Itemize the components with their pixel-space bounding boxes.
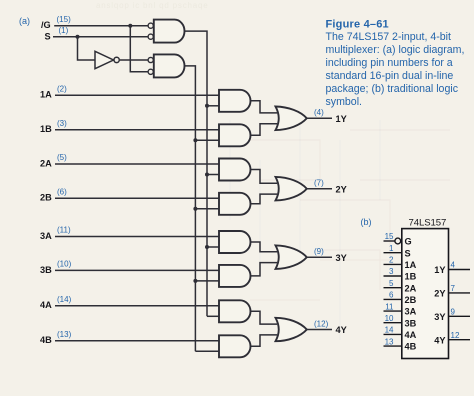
svg-text:1A: 1A	[40, 90, 52, 100]
svg-text:1A: 1A	[405, 260, 417, 270]
IC U2 74LS157 title	[409, 218, 447, 229]
svg-text:2A: 2A	[40, 158, 52, 168]
pin number 7	[451, 284, 456, 293]
wire 2Y output	[307, 188, 332, 190]
svg-text:1: 1	[389, 244, 394, 253]
pin (3) on 1B	[57, 119, 67, 128]
OR gate for 4Y	[276, 318, 307, 341]
wire 1A gate output to OR	[251, 101, 278, 113]
pin 1 on S	[59, 26, 69, 35]
svg-text:3B: 3B	[40, 265, 52, 275]
wire select bus to 4B gate second input	[195, 350, 219, 352]
net /G label	[41, 20, 51, 30]
node label (b)	[361, 217, 372, 227]
pin 15 (G) wire	[384, 240, 395, 242]
pin number 9	[451, 308, 456, 317]
net 2B label	[40, 193, 52, 203]
svg-text:(12): (12)	[314, 319, 329, 328]
AND gate for 3B	[219, 265, 251, 287]
wire 4B to AND gate	[55, 340, 219, 342]
pin label 3Y	[434, 312, 445, 322]
svg-text:symbol.: symbol.	[326, 96, 363, 108]
pin 10 (3B) wire	[384, 322, 402, 324]
svg-text:(1): (1)	[59, 26, 69, 35]
net 3Y label	[336, 253, 347, 263]
pin 7 (2Y) wire	[449, 292, 471, 294]
svg-text:3Y: 3Y	[336, 253, 347, 263]
wire 3Y output	[307, 256, 332, 258]
wire 2A gate output to OR	[251, 170, 278, 184]
wire 4A to AND gate	[55, 305, 219, 307]
OR gate for 1Y	[276, 107, 307, 131]
svg-text:(5): (5)	[57, 153, 67, 162]
pin label 2Y	[434, 289, 445, 299]
pin label S	[405, 248, 411, 258]
wire select bus to 1B gate second input	[195, 139, 219, 141]
svg-text:(11): (11)	[57, 226, 71, 235]
wire 4Y output	[307, 329, 332, 331]
svg-text:(b): (b)	[361, 217, 372, 227]
svg-text:2Y: 2Y	[434, 289, 445, 299]
wire S to gate G1 input	[53, 36, 148, 38]
svg-text:4Y: 4Y	[434, 335, 445, 345]
svg-text:4B: 4B	[405, 342, 417, 352]
wire select bus to 2A gate second input	[207, 174, 219, 176]
pin 11 (3A) wire	[384, 310, 402, 312]
figure caption	[326, 19, 465, 109]
svg-text:(15): (15)	[57, 15, 72, 24]
pin number 15	[385, 232, 394, 241]
AND gate for 3A	[219, 231, 251, 253]
svg-text:3A: 3A	[40, 231, 52, 241]
net 4A label	[40, 300, 52, 310]
junction on /G	[128, 24, 132, 28]
wire select bus to 4A gate second input	[207, 315, 219, 317]
pin label 4B	[405, 342, 417, 352]
pin label 4Y	[434, 335, 445, 345]
pin (7) on 2Y	[314, 179, 324, 188]
svg-text:S: S	[405, 248, 411, 258]
wire 4B gate output to OR	[251, 335, 278, 346]
svg-text:2A: 2A	[405, 283, 417, 293]
wire 3A to AND gate	[55, 236, 219, 238]
svg-text:/G: /G	[41, 20, 51, 30]
pin label 3A	[405, 307, 417, 317]
pin (10) on 3B	[57, 259, 72, 268]
pin 2 (1A) wire	[384, 263, 402, 265]
wire /G to gate G1 input	[54, 25, 148, 27]
junction bus at 1A gate	[205, 104, 209, 108]
svg-text:1Y: 1Y	[336, 114, 347, 124]
pin 3 (1B) wire	[384, 275, 402, 277]
svg-text:9: 9	[451, 308, 456, 317]
AND gate for 4A	[219, 300, 251, 322]
svg-text:(2): (2)	[57, 84, 67, 93]
svg-text:(14): (14)	[57, 295, 72, 304]
pin 13 (4B) wire	[384, 345, 402, 347]
wire select bus to 2B gate second input	[195, 208, 219, 210]
svg-text:2B: 2B	[40, 193, 52, 203]
node label (a)	[19, 16, 30, 26]
wire 2B gate output to OR	[251, 194, 278, 204]
net 2A label	[40, 158, 52, 168]
svg-text:7: 7	[451, 284, 456, 293]
pin number 10	[385, 314, 394, 323]
pin number 13	[385, 337, 394, 346]
svg-text:3Y: 3Y	[434, 312, 445, 322]
net 2Y label	[336, 184, 347, 194]
AND gate for 1B	[219, 124, 251, 146]
AND gate for 4B	[219, 335, 251, 357]
svg-text:5: 5	[389, 279, 394, 288]
junction bus at 2B gate	[193, 207, 197, 211]
AND gate G1 (A-select enable, bubbled inputs)	[148, 20, 184, 43]
OR gate for 2Y	[276, 177, 307, 201]
pin 9 (3Y) wire	[449, 315, 471, 317]
svg-text:4A: 4A	[40, 300, 52, 310]
pin number 2	[389, 256, 394, 265]
inverter U1	[95, 51, 119, 68]
junction bus at 3A gate	[205, 245, 209, 249]
net S label	[45, 31, 51, 41]
pin number 12	[451, 331, 460, 340]
pin 15 on /G	[57, 15, 72, 24]
wire 3B gate output to OR	[251, 263, 278, 276]
svg-text:including pin numbers for a: including pin numbers for a	[326, 57, 453, 69]
svg-text:6: 6	[389, 291, 394, 300]
wire 1A to AND gate	[55, 94, 219, 96]
svg-text:4B: 4B	[40, 335, 52, 345]
pin number 14	[385, 326, 394, 335]
pin label 4A	[405, 330, 417, 340]
svg-text:(4): (4)	[314, 108, 324, 117]
svg-text:2: 2	[389, 256, 394, 265]
AND gate for 2A	[219, 159, 251, 181]
svg-text:14: 14	[385, 326, 394, 335]
svg-text:4A: 4A	[405, 330, 417, 340]
svg-text:(10): (10)	[57, 259, 72, 268]
IC U2 body	[402, 229, 449, 359]
svg-text:The 74LS157 2-input, 4-bit: The 74LS157 2-input, 4-bit	[326, 31, 452, 43]
junction bus at 1B gate	[193, 138, 197, 142]
wire 2A to AND gate	[55, 163, 219, 165]
svg-text:1Y: 1Y	[434, 265, 445, 275]
pin 1 (S) wire	[384, 252, 402, 254]
pin label 3B	[405, 318, 417, 328]
svg-text:1B: 1B	[40, 124, 52, 134]
svg-text:11: 11	[385, 302, 394, 311]
wire select bus to 3B gate second input	[195, 280, 219, 282]
svg-text:G: G	[405, 237, 412, 247]
pin (11) on 3A	[57, 226, 71, 235]
AND gate for 1A	[219, 90, 251, 112]
net 1Y label	[336, 114, 347, 124]
AND gate for 2B	[219, 193, 251, 215]
wire 1B gate output to OR	[251, 124, 278, 136]
svg-text:4: 4	[451, 261, 456, 270]
svg-text:(3): (3)	[57, 119, 67, 128]
net 4B label	[40, 335, 52, 345]
net 4Y label	[336, 325, 347, 335]
svg-text:standard 16-pin dual in-line: standard 16-pin dual in-line	[326, 70, 454, 82]
wire 4A gate output to OR	[251, 311, 278, 324]
pin label 2B	[405, 295, 417, 305]
pin number 6	[389, 291, 394, 300]
pin number 3	[389, 267, 394, 276]
net 3A label	[40, 231, 52, 241]
svg-text:(6): (6)	[57, 187, 67, 196]
pin label 1B	[405, 272, 417, 282]
svg-text:anslqop ic bnl qd pschaqe: anslqop ic bnl qd pschaqe	[96, 1, 209, 10]
junction bus at 2A gate	[205, 173, 209, 177]
wire 1B to AND gate	[55, 129, 219, 131]
svg-text:74LS157: 74LS157	[409, 218, 447, 229]
pin 12 (4Y) wire	[449, 339, 471, 341]
pin 5 (2A) wire	[384, 287, 402, 289]
pin label G	[405, 237, 412, 247]
pin (4) on 1Y	[314, 108, 324, 117]
svg-text:2B: 2B	[405, 295, 417, 305]
pin (2) on 1A	[57, 84, 67, 93]
svg-text:10: 10	[385, 314, 394, 323]
wire 1Y output	[307, 117, 332, 119]
svg-text:Figure 4–61: Figure 4–61	[326, 19, 389, 31]
pin label 1A	[405, 260, 417, 270]
pin label 1Y	[434, 265, 445, 275]
pin (12) on 4Y	[314, 319, 329, 328]
wire /G branch down to gate G2 input	[130, 26, 148, 72]
pin 6 (2B) wire	[384, 298, 402, 300]
svg-text:3: 3	[389, 267, 394, 276]
wire 3B to AND gate	[55, 269, 219, 271]
pin (13) on 4B	[57, 330, 72, 339]
svg-text:multiplexer: (a) logic diagra: multiplexer: (a) logic diagram,	[326, 44, 465, 56]
pin number 4	[451, 261, 456, 270]
svg-text:(7): (7)	[314, 179, 324, 188]
wire G1 output / select bus A	[185, 31, 208, 316]
svg-text:15: 15	[385, 232, 394, 241]
svg-text:package; (b) traditional logic: package; (b) traditional logic	[326, 83, 459, 95]
wire inverter output to gate G2	[120, 59, 148, 61]
svg-text:12: 12	[451, 331, 460, 340]
pin (9) on 3Y	[314, 247, 324, 256]
svg-text:3B: 3B	[405, 318, 417, 328]
pin (6) on 2B	[57, 187, 67, 196]
wire 3A gate output to OR	[251, 242, 278, 252]
bubble on G input	[395, 238, 401, 244]
svg-text:(9): (9)	[314, 247, 324, 256]
AND gate G2 (B-select enable, bubbled inputs)	[148, 54, 184, 77]
wire select bus to 1A gate second input	[207, 105, 219, 107]
pin (5) on 2A	[57, 153, 67, 162]
pin number 1	[389, 244, 394, 253]
pin number 5	[389, 279, 394, 288]
OR gate for 3Y	[276, 245, 307, 269]
pin (14) on 4A	[57, 295, 72, 304]
svg-text:S: S	[45, 31, 51, 41]
wire G2 output / select bus B	[185, 66, 196, 351]
wire select bus to 3A gate second input	[207, 246, 219, 248]
svg-text:4Y: 4Y	[336, 325, 347, 335]
svg-text:(a): (a)	[19, 16, 30, 26]
junction on S	[76, 35, 80, 39]
svg-text:1B: 1B	[405, 272, 417, 282]
wire 2B to AND gate	[55, 197, 219, 199]
pin 4 (1Y) wire	[449, 269, 471, 271]
svg-text:2Y: 2Y	[336, 184, 347, 194]
wire S branch to inverter	[78, 37, 96, 60]
pin 14 (4A) wire	[384, 333, 402, 335]
svg-text:3A: 3A	[405, 307, 417, 317]
net 3B label	[40, 265, 52, 275]
svg-text:13: 13	[385, 337, 394, 346]
net 1A label	[40, 90, 52, 100]
pin number 11	[385, 302, 394, 311]
svg-text:(13): (13)	[57, 330, 72, 339]
junction bus at 3B gate	[193, 279, 197, 283]
pin label 2A	[405, 283, 417, 293]
net 1B label	[40, 124, 52, 134]
